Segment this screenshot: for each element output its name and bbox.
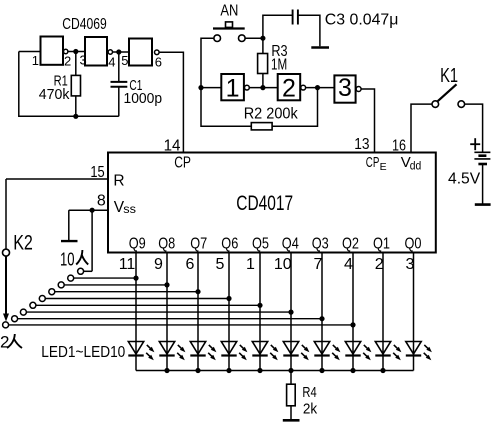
svg-text:R2 200k: R2 200k bbox=[244, 106, 299, 123]
svg-text:Q1: Q1 bbox=[373, 235, 390, 252]
svg-text:LED1~LED10: LED1~LED10 bbox=[41, 344, 125, 361]
svg-text:8: 8 bbox=[97, 192, 106, 209]
svg-text:1M: 1M bbox=[271, 57, 287, 74]
svg-text:11: 11 bbox=[119, 256, 136, 273]
svg-text:4.5V: 4.5V bbox=[448, 170, 481, 187]
svg-text:1: 1 bbox=[226, 74, 240, 102]
svg-text:2k: 2k bbox=[303, 402, 318, 418]
svg-text:Q9: Q9 bbox=[129, 235, 146, 252]
svg-text:10: 10 bbox=[60, 248, 75, 269]
svg-text:CD4017: CD4017 bbox=[236, 192, 293, 215]
svg-text:ss: ss bbox=[123, 202, 136, 216]
svg-text:CP: CP bbox=[366, 154, 380, 171]
svg-text:5: 5 bbox=[121, 53, 128, 68]
svg-text:K1: K1 bbox=[440, 65, 458, 87]
svg-text:R: R bbox=[113, 173, 124, 190]
svg-text:470k: 470k bbox=[39, 87, 70, 103]
svg-text:C3 0.047μ: C3 0.047μ bbox=[325, 12, 399, 29]
svg-text:5: 5 bbox=[216, 256, 225, 273]
svg-text:AN: AN bbox=[220, 3, 238, 20]
svg-text:9: 9 bbox=[154, 256, 163, 273]
svg-text:3: 3 bbox=[80, 52, 87, 67]
svg-text:Q8: Q8 bbox=[158, 235, 175, 252]
svg-text:2: 2 bbox=[282, 74, 296, 102]
svg-text:2: 2 bbox=[0, 333, 9, 352]
svg-text:CD4069: CD4069 bbox=[62, 16, 107, 33]
svg-text:13: 13 bbox=[354, 136, 369, 153]
svg-text:4: 4 bbox=[344, 256, 353, 273]
svg-text:K2: K2 bbox=[13, 231, 33, 254]
svg-text:3: 3 bbox=[338, 74, 352, 102]
svg-text:7: 7 bbox=[313, 256, 322, 273]
svg-text:1: 1 bbox=[32, 53, 39, 68]
svg-text:E: E bbox=[380, 161, 387, 173]
svg-text:dd: dd bbox=[410, 158, 422, 172]
svg-text:Q5: Q5 bbox=[252, 235, 269, 252]
svg-text:CP: CP bbox=[174, 154, 191, 171]
svg-text:Q6: Q6 bbox=[221, 235, 238, 252]
svg-text:Q0: Q0 bbox=[405, 235, 422, 252]
svg-text:Q2: Q2 bbox=[342, 235, 359, 252]
svg-text:6: 6 bbox=[155, 55, 162, 70]
svg-text:Q3: Q3 bbox=[312, 235, 329, 252]
svg-text:1000p: 1000p bbox=[124, 91, 163, 107]
svg-text:1: 1 bbox=[246, 256, 255, 273]
svg-text:2: 2 bbox=[64, 53, 71, 68]
svg-text:R4: R4 bbox=[302, 385, 316, 401]
svg-text:10: 10 bbox=[274, 256, 292, 273]
svg-text:4: 4 bbox=[108, 55, 115, 70]
svg-text:6: 6 bbox=[186, 256, 195, 273]
svg-text:Q7: Q7 bbox=[190, 235, 207, 252]
svg-text:Q4: Q4 bbox=[282, 235, 299, 252]
